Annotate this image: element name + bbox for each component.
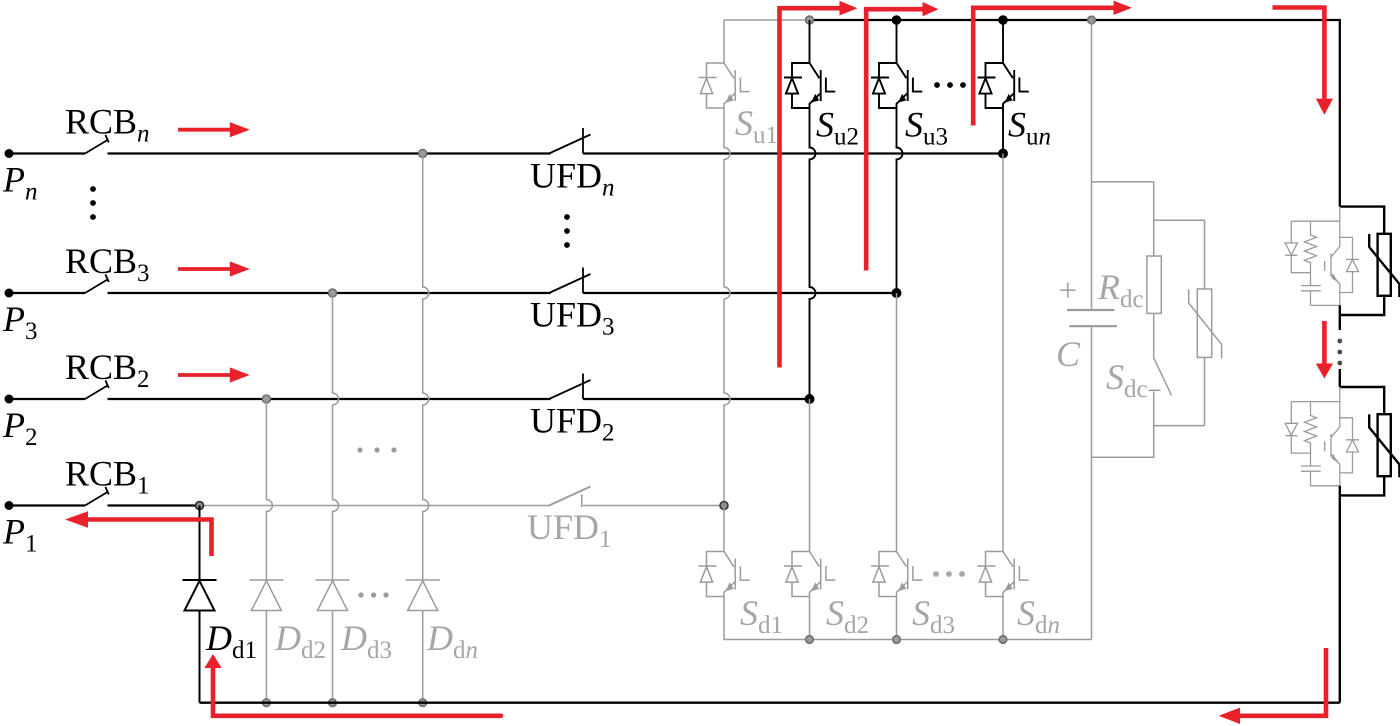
wire varistor branch bottom bbox=[1204, 357, 1206, 425]
red arrow P3 path bbox=[866, 9, 923, 270]
wire Dd1 column upper bbox=[199, 506, 201, 581]
wire Pn row right bbox=[583, 152, 1003, 154]
wire top bus black segment bbox=[810, 20, 1340, 207]
switch Sd3 bbox=[871, 552, 922, 597]
diode Dd3 bbox=[316, 580, 350, 611]
breaker cell cell1 black frame bbox=[1340, 207, 1400, 315]
wire P1 row left bbox=[9, 504, 85, 506]
red arrow RCB2 bbox=[178, 373, 231, 377]
svg-text:RCBn: RCBn bbox=[65, 102, 150, 148]
disconnector UFD3 bbox=[549, 274, 591, 293]
wire Dd1 column lower bbox=[199, 611, 201, 703]
svg-text:RCB2: RCB2 bbox=[65, 347, 150, 393]
wire Dd2 column upper bbox=[266, 399, 272, 580]
svg-text:Su3: Su3 bbox=[905, 105, 948, 151]
red arrow top right down bbox=[1273, 8, 1325, 99]
node legn-Pn bbox=[998, 149, 1008, 159]
port P2 bbox=[5, 395, 14, 404]
wire leg2 bottom bbox=[809, 597, 811, 640]
svg-text:+: + bbox=[1059, 273, 1078, 309]
wire cap branch lower bbox=[1091, 327, 1093, 639]
svg-text:Sdc: Sdc bbox=[1106, 357, 1148, 403]
dots between Pn and P3 bbox=[90, 186, 96, 192]
disconnector UFDn bbox=[549, 135, 591, 154]
svg-text:Dd1: Dd1 bbox=[205, 618, 257, 664]
node Dn junction bbox=[419, 150, 427, 158]
wire P2 row mid bbox=[108, 398, 551, 400]
switch Su2 bbox=[784, 63, 835, 108]
wire P2 row left bbox=[9, 398, 85, 400]
port P3 bbox=[5, 289, 14, 298]
wire Rdc branch top bbox=[1092, 182, 1154, 257]
breaker RCB3 bbox=[9, 292, 85, 294]
red arrow RCB3 bbox=[178, 267, 231, 271]
node D2 junction bbox=[262, 395, 270, 403]
node Dd3 bottom bbox=[329, 699, 337, 707]
svg-text:C: C bbox=[1056, 334, 1081, 374]
wire top bus gray segment bbox=[724, 19, 810, 21]
node leg3 top bbox=[892, 15, 902, 25]
svg-text:Sd3: Sd3 bbox=[912, 593, 955, 639]
svg-text:P3: P3 bbox=[2, 299, 38, 345]
breaker cell cell2 black frame bbox=[1340, 387, 1400, 495]
red arrow P1 out bbox=[88, 520, 212, 557]
red arrow bottom left up bbox=[213, 668, 501, 716]
port Pn bbox=[5, 149, 14, 158]
dots between Sd3 and Sdn bbox=[933, 571, 939, 577]
capacitor C bbox=[1067, 310, 1117, 326]
svg-text:Su1: Su1 bbox=[735, 103, 778, 149]
wire right line to bottom bbox=[1339, 495, 1341, 702]
wire Ddn column upper bbox=[423, 154, 429, 581]
wire leg1 bottom corner bbox=[724, 597, 1092, 640]
dots between UFDn and UFD3 bbox=[564, 214, 570, 220]
wire leg3 bottom bbox=[896, 597, 898, 640]
red arrow RCBn bbox=[178, 128, 231, 132]
red arrow bottom right bbox=[1240, 648, 1326, 716]
node leg2-P2 bbox=[805, 394, 815, 404]
node Dd2 bottom bbox=[263, 699, 271, 707]
wire between-cell stub top bbox=[1339, 369, 1341, 387]
varistor dc bbox=[1189, 289, 1222, 359]
svg-text:RCB3: RCB3 bbox=[65, 241, 150, 287]
wire leg1 lower bbox=[723, 506, 725, 552]
svg-text:Su2: Su2 bbox=[816, 105, 859, 151]
svg-text:Ddn: Ddn bbox=[426, 618, 478, 664]
svg-text:Sun: Sun bbox=[1008, 105, 1051, 151]
wire leg3 top bbox=[896, 20, 898, 63]
wire leg2 mid bbox=[810, 108, 816, 399]
port P1 bbox=[5, 501, 14, 510]
switch Su1 bbox=[699, 63, 750, 108]
breaker cell cell2 snubber bbox=[1285, 387, 1359, 486]
breaker RCBn bbox=[9, 153, 85, 155]
wire leg2 lower bbox=[809, 399, 811, 552]
breaker RCB2 bbox=[9, 398, 85, 400]
svg-text:Dd2: Dd2 bbox=[274, 618, 326, 664]
dots between Su3 and Sun bbox=[934, 82, 940, 88]
red arrow P2 path bbox=[780, 8, 841, 367]
wire leg3 lower bbox=[896, 293, 898, 552]
svg-text:Pn: Pn bbox=[2, 160, 38, 206]
svg-text:Sd1: Sd1 bbox=[740, 593, 783, 639]
wire varistor branch top bbox=[1154, 220, 1205, 289]
node leg2 top bbox=[806, 16, 814, 24]
node dots between cells bbox=[1337, 339, 1342, 344]
switch Sdn bbox=[978, 552, 1029, 597]
switch Sd1 bbox=[699, 552, 750, 597]
disconnector UFD2 bbox=[549, 380, 591, 399]
svg-text:P1: P1 bbox=[2, 512, 38, 558]
switch Sdc bbox=[1149, 359, 1172, 396]
wire Dd3 column lower bbox=[332, 611, 334, 703]
svg-text:Sd2: Sd2 bbox=[826, 593, 869, 639]
diode Dd2 bbox=[249, 580, 283, 611]
svg-text:UFD1: UFD1 bbox=[527, 507, 612, 553]
wire P3 row left bbox=[9, 292, 85, 294]
wire leg2 top bbox=[809, 20, 811, 63]
node D1 junction bbox=[196, 502, 204, 510]
node legn top bbox=[998, 15, 1008, 25]
wire P2 row right bbox=[583, 398, 810, 400]
wire Pn row mid bbox=[108, 152, 551, 154]
dots between Dd3 and Ddn columns bbox=[357, 447, 362, 452]
wire cell1 bottom stub bbox=[1339, 305, 1341, 315]
wire P3 row right bbox=[583, 292, 897, 294]
wire legn bottom bbox=[1002, 597, 1004, 640]
wire legn top bbox=[1002, 20, 1004, 63]
switch Sd2 bbox=[784, 552, 835, 597]
node legn rail bbox=[999, 636, 1007, 644]
wire legn lower bbox=[1002, 154, 1004, 552]
wire P1 row black bbox=[108, 504, 200, 506]
wire cell2 bottom stub bbox=[1339, 486, 1341, 496]
wire Sdc bottom bbox=[1092, 392, 1205, 458]
wire Dd2 column lower bbox=[265, 611, 267, 703]
svg-text:Rdc: Rdc bbox=[1097, 267, 1144, 313]
switch Sun bbox=[978, 63, 1029, 108]
wire bottom rail bbox=[200, 702, 1340, 704]
diode Ddn bbox=[406, 580, 440, 611]
node leg3-P3 bbox=[892, 288, 902, 298]
disconnector UFD1 bbox=[549, 487, 591, 506]
wire P1 row gray right bbox=[583, 505, 724, 507]
svg-text:UFD2: UFD2 bbox=[530, 401, 615, 447]
wire Rdc to Sdc bbox=[1153, 313, 1155, 358]
node Ddn bottom bbox=[419, 699, 427, 707]
breaker RCB1 bbox=[9, 505, 85, 507]
wire P1 row gray bbox=[200, 505, 551, 507]
svg-text:UFDn: UFDn bbox=[530, 156, 615, 202]
wire Pn row left bbox=[9, 152, 85, 154]
resistor Rdc bbox=[1147, 256, 1161, 313]
breaker cell cell1 snubber bbox=[1285, 207, 1359, 306]
red arrow between cells down bbox=[1322, 321, 1327, 365]
wire Dd3 column upper bbox=[333, 293, 339, 580]
node leg1-P1 bbox=[720, 502, 728, 510]
node leg2 rail bbox=[806, 636, 814, 644]
svg-text:RCB1: RCB1 bbox=[65, 454, 150, 500]
wire legn mid bbox=[1002, 108, 1004, 154]
red arrow Pn path bbox=[973, 8, 1114, 126]
svg-text:UFD3: UFD3 bbox=[530, 295, 615, 341]
wire leg1 mid bbox=[724, 108, 730, 506]
node cap top bbox=[1088, 16, 1096, 24]
wire leg1 top bbox=[723, 20, 725, 63]
node leg3 rail bbox=[893, 636, 901, 644]
wire P3 row mid bbox=[108, 292, 551, 294]
wire Ddn column lower bbox=[422, 611, 424, 703]
svg-text:Dd3: Dd3 bbox=[340, 618, 392, 664]
diode Dd1 bbox=[183, 580, 217, 611]
dots between Dd3 and Ddn diodes bbox=[358, 592, 363, 597]
svg-text:Sdn: Sdn bbox=[1017, 593, 1060, 639]
switch Su3 bbox=[871, 63, 922, 108]
wire leg3 mid bbox=[897, 108, 903, 293]
node D3 junction bbox=[329, 289, 337, 297]
wire cap branch upper bbox=[1091, 20, 1093, 309]
svg-text:P2: P2 bbox=[2, 405, 38, 451]
